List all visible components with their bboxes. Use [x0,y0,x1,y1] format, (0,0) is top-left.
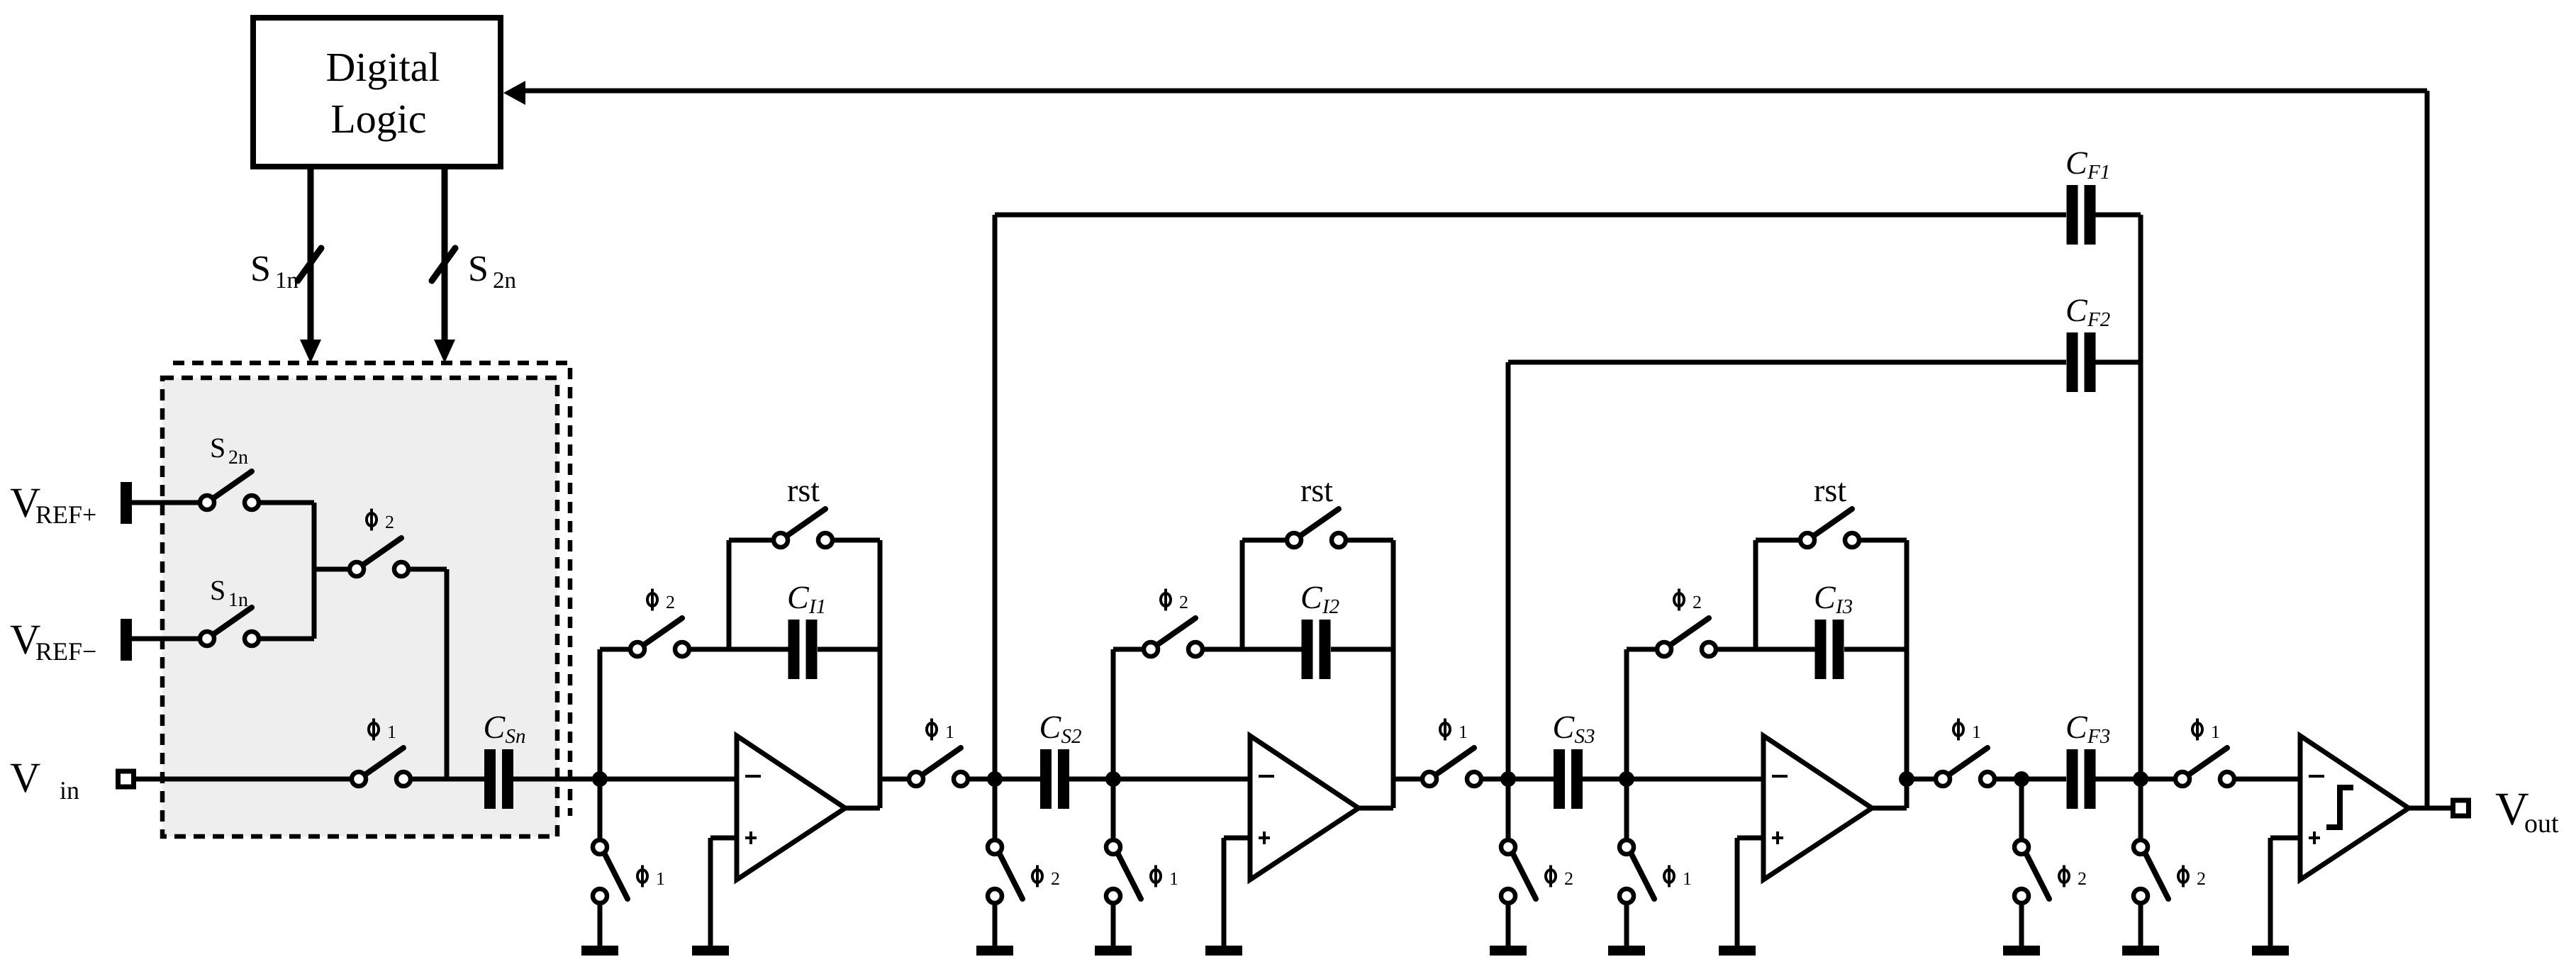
wire Vout feedback vertical [2425,91,2430,808]
capacitor C_F3 [2067,749,2096,809]
svg-text:1: 1 [656,868,665,889]
svg-text:S: S [210,432,225,464]
svg-text:V: V [10,754,40,801]
wire rst line left [1242,538,1285,543]
svg-text:F2: F2 [2087,308,2110,331]
wire F to phi1 [2141,777,2173,782]
ground comparator [2252,946,2289,956]
wire after phi1 to C_Sn [413,777,484,782]
switch phi1 (input) [352,748,411,786]
wire phi2 line [1627,647,1655,652]
svg-text:2: 2 [2078,868,2087,889]
switch S1n [200,607,259,646]
node A (C_F1 tap) [987,771,1003,787]
node F [2133,771,2148,787]
switch phi1 output integrator 1 [909,748,968,786]
wire to comparator [2236,777,2300,782]
phi2 label [367,509,394,533]
svg-text:2n: 2n [228,447,248,469]
svg-text:rst: rst [1814,472,1846,508]
wire node to op-amp 2 [1113,777,1250,782]
wire phi2 line [1113,647,1142,652]
node at integrator 3 output [1899,771,1914,787]
svg-text:C: C [1553,709,1576,745]
svg-text:in: in [60,776,79,805]
wire after S2n [261,500,314,505]
arrowhead S2n [434,340,455,363]
slash S1n [298,248,321,281]
svg-text:2: 2 [385,512,394,532]
switch phi2 to ground below A [976,779,1022,956]
wire F vertical (C_F1/C_F2 common) [2139,215,2143,779]
switch phi2 integrator 1 [630,618,689,656]
phi1 label [1440,719,1468,743]
svg-text:1: 1 [1972,722,1981,742]
wire node C to C_S3 [1508,777,1554,782]
svg-text:C: C [1814,579,1836,615]
svg-text:1: 1 [1169,868,1178,889]
wire C_F1 to corner [2095,213,2141,218]
switch phi2 to ground below C [1490,779,1536,956]
feedback vertical wire [1905,540,1909,808]
capacitor C_F2 [2067,332,2096,392]
feedback vertical wire [1391,540,1396,808]
capacitor C_S2 [1040,749,1069,809]
wire C_F2 line [1508,360,2066,365]
terminal VREF- [121,619,132,661]
switch phi2 to ground below F [2122,779,2168,956]
svg-text:Sn: Sn [506,725,526,748]
arrowhead S1n [300,340,321,363]
wire after phi1 [1483,777,1508,782]
wire after phi1 [1997,777,2022,782]
op-amp output wire [1359,806,1393,811]
integrator 2 input node [1105,771,1121,787]
wire C_I1 to feedback vertical [818,647,880,652]
Digital Logic box [253,18,501,167]
phi2 label [647,589,675,613]
svg-text:2: 2 [1693,592,1702,612]
wire output stub [880,777,907,782]
switch phi1 output integrator 3 [1936,748,1995,786]
svg-text:rst: rst [787,472,820,508]
wire C_S3 to node [1583,777,1627,782]
capacitor C_I3 [1815,620,1844,679]
wire S1n control from Digital Logic [308,167,314,340]
wire to C_I3 [1718,647,1815,652]
wire output stub [1907,777,1934,782]
wire C_F2 to vertical [2095,360,2141,365]
svg-text:2: 2 [2197,868,2206,889]
switch phi1 to ground below node [1095,779,1141,956]
phi2 label [1674,589,1702,613]
svg-text:C: C [787,579,810,615]
wire output stub [1393,777,1420,782]
switch phi2 integrator 3 [1657,618,1716,656]
svg-text:S: S [250,249,271,289]
svg-text:1: 1 [1459,722,1468,742]
rst left vertical wire [1240,540,1245,649]
svg-text:1: 1 [2211,722,2220,742]
switch phi1 to ground below node [581,779,628,956]
wire phi2 line [600,647,628,652]
capacitor C_I2 [1302,620,1331,679]
wire top feedback line [525,89,2427,94]
svg-text:S: S [468,249,489,289]
phi2 label [1161,589,1188,613]
switch phi2 to ground below E [2003,779,2049,956]
phi1 label [1953,719,1981,743]
outer dashed box (top/right edges) [173,363,570,816]
op-amp output wire [1872,806,1907,811]
slash S2n [432,248,455,281]
wire Vin [136,777,352,782]
terminal VREF+ [121,482,132,524]
wire comparator output [2409,806,2450,811]
node C (C_F2 tap) [1500,771,1516,787]
svg-text:I3: I3 [1835,595,1853,618]
wire node up to phi2 line [1624,649,1629,779]
wire to phi2 switch [314,567,347,572]
svg-text:out: out [2524,809,2559,839]
switch phi1 output integrator 2 [1422,748,1481,786]
wire after S1n [261,637,314,642]
switch rst integrator 3 [1800,509,1859,547]
capacitor C_Sn [484,749,513,809]
switch rst integrator 2 [1287,509,1346,547]
wire rst line left [1756,538,1798,543]
op-amp output wire [845,806,880,811]
wire S2n control from Digital Logic [442,167,448,340]
op-amp U1 [737,736,845,880]
phi1 label [927,719,954,743]
svg-text:F3: F3 [2087,725,2110,748]
svg-text:2n: 2n [493,268,516,293]
op-amp plus input wire [1737,836,1763,841]
svg-text:S: S [210,574,225,606]
wire C_S2 to node [1069,777,1113,782]
svg-text:S3: S3 [1575,725,1595,748]
op-amp plus input wire [1224,836,1250,841]
comparator plus wire [2270,836,2300,841]
wire node to op-amp 3 [1627,777,1763,782]
svg-text:1n: 1n [228,589,248,611]
wire C_I3 to feedback vertical [1844,647,1907,652]
ground op-amp 3 [1719,946,1756,956]
wire joining VREF+/- [312,503,317,639]
wire node A to C_S2 [995,777,1040,782]
op-amp U2 [1250,736,1359,880]
svg-text:Logic: Logic [330,96,426,142]
wire to C_I1 [691,647,788,652]
wire VREF- [132,637,198,642]
wire C_F3 to node F [2095,777,2141,782]
op-amp plus input wire [710,836,737,841]
wire down to main line [445,569,450,779]
ground op-amp 2 [1205,946,1242,956]
svg-text:Digital: Digital [325,44,440,90]
capacitor C_S3 [1554,749,1583,809]
terminal Vin [118,771,134,787]
wire C_Sn to integrator 1 [513,777,737,782]
svg-text:rst: rst [1300,472,1333,508]
switch S2n [200,471,259,510]
wire rst line left [729,538,771,543]
svg-text:REF+: REF+ [35,500,96,529]
svg-text:2: 2 [1051,868,1060,889]
wire rst line right [1861,538,1907,543]
switch phi1 to ground below node [1608,779,1654,956]
switch phi1 (comparator input) [2175,748,2234,786]
svg-text:I2: I2 [1322,595,1339,618]
svg-text:1: 1 [945,722,954,742]
wire after phi2 [411,567,447,572]
wire A up to C_F1 line [993,215,998,779]
node E [2014,771,2029,787]
svg-text:S2: S2 [1061,725,1082,748]
integrator 3 input node [1619,771,1634,787]
svg-text:1n: 1n [275,268,299,293]
wire C_I2 to feedback vertical [1331,647,1393,652]
svg-text:2: 2 [666,592,675,612]
terminal Vout [2453,800,2469,816]
wire rst line right [1348,538,1393,543]
phi1 label [369,719,396,743]
wire node up to phi2 line [1111,649,1116,779]
op-amp U3 [1763,736,1872,880]
phi1 label [2192,719,2220,743]
wire VREF+ [132,500,198,505]
svg-text:1: 1 [1683,868,1692,889]
svg-text:I1: I1 [808,595,826,618]
wire rst line right [835,538,880,543]
feedback vertical wire [878,540,883,808]
svg-text:REF−: REF− [35,637,96,666]
switch phi2 integrator 2 [1144,618,1203,656]
svg-text:C: C [1039,709,1062,745]
svg-text:2: 2 [1564,868,1573,889]
svg-text:C: C [2065,145,2088,181]
capacitor C_F1 [2067,185,2096,245]
svg-text:C: C [2065,709,2088,745]
ground op-amp 1 [692,946,729,956]
svg-text:C: C [2065,292,2088,328]
gray dashed box [162,378,557,836]
svg-text:C: C [484,709,506,745]
switch phi2 (reference) [350,538,408,576]
wire after phi1 [970,777,995,782]
wire node up to phi2 line [598,649,603,779]
switch rst integrator 1 [774,509,832,547]
wire C_F1 line [995,213,2066,218]
comparator [2300,736,2409,880]
svg-text:F1: F1 [2087,161,2110,184]
svg-text:1: 1 [387,722,396,742]
wire C up to C_F2 line [1506,362,1511,779]
svg-text:C: C [1300,579,1323,615]
integrator 1 input node [592,771,608,787]
rst left vertical wire [727,540,732,649]
wire to C_I2 [1205,647,1302,652]
rst left vertical wire [1753,540,1758,649]
arrowhead into Digital Logic [503,81,525,105]
svg-text:2: 2 [1179,592,1188,612]
capacitor C_I1 [788,620,818,679]
wire E to C_F3 [2022,777,2066,782]
